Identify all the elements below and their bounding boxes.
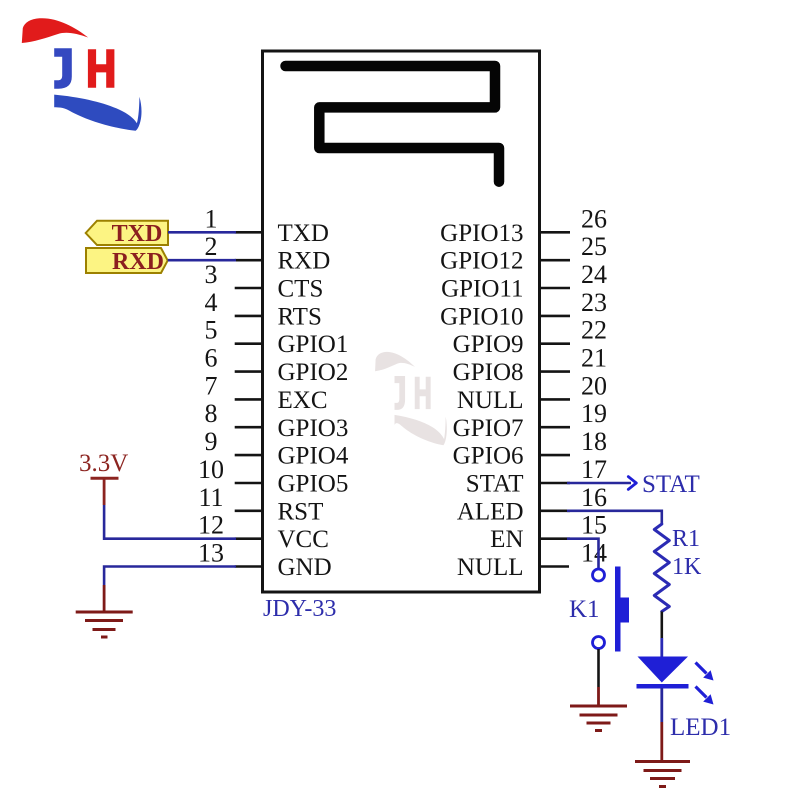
svg-text:26: 26 [581, 204, 607, 233]
svg-text:ALED: ALED [457, 498, 524, 525]
pin 2 stub [235, 259, 263, 262]
pin 19 stub [540, 426, 571, 429]
pin 25 stub [540, 259, 571, 262]
svg-text:GPIO1: GPIO1 [278, 331, 349, 358]
pin 3 stub [235, 287, 263, 290]
logo red swoosh [22, 18, 88, 43]
pin 26 stub [540, 231, 571, 234]
svg-text:EXC: EXC [278, 387, 328, 414]
switch K1 actuator bar [615, 567, 621, 652]
svg-text:RXD: RXD [112, 249, 164, 275]
svg-text:RXD: RXD [278, 248, 331, 275]
wire STAT [567, 482, 631, 485]
pin 8 stub [235, 426, 263, 429]
svg-text:STAT: STAT [466, 471, 524, 498]
svg-text:GND: GND [278, 554, 332, 581]
wire TXD to pin 1 [168, 231, 236, 234]
pin 1 stub [235, 231, 263, 234]
ground symbol K1 [570, 706, 627, 731]
LED1 cathode bar [637, 684, 689, 689]
wire R1 to LED1 [660, 612, 663, 639]
svg-text:3.3V: 3.3V [79, 450, 128, 477]
wire LED1 to ground [660, 688, 663, 722]
watermark ghost logo [375, 352, 447, 445]
svg-text:GPIO8: GPIO8 [453, 359, 524, 386]
pin 15 stub [540, 537, 571, 540]
STAT arrow head [628, 477, 636, 490]
pin 16 stub [540, 509, 571, 512]
pin 6 stub [235, 370, 263, 373]
svg-text:6: 6 [205, 344, 218, 373]
svg-text:GPIO2: GPIO2 [278, 359, 349, 386]
svg-text:2: 2 [205, 232, 218, 261]
pin 12 stub [235, 537, 263, 540]
svg-text:TXD: TXD [278, 220, 329, 247]
svg-text:12: 12 [198, 511, 224, 540]
svg-text:19: 19 [581, 399, 607, 428]
pin 17 stub [540, 482, 571, 485]
pin 22 stub [540, 342, 571, 345]
LED1 light arrow 1 [696, 663, 714, 681]
svg-text:15: 15 [581, 511, 607, 540]
resistor R1 [654, 524, 669, 612]
wire K1 to ground [597, 649, 600, 687]
pin 23 stub [540, 315, 571, 318]
svg-text:4: 4 [205, 288, 218, 317]
svg-text:GPIO7: GPIO7 [453, 415, 524, 442]
wire GND pin 13 to ground [104, 567, 236, 586]
svg-text:JDY-33: JDY-33 [263, 596, 336, 622]
logo letter J [54, 48, 72, 88]
svg-text:5: 5 [205, 316, 218, 345]
svg-text:GPIO5: GPIO5 [278, 471, 349, 498]
IC U1 JDY-33 module body [263, 51, 540, 592]
pin 18 stub [540, 454, 571, 457]
svg-text:CTS: CTS [278, 276, 324, 303]
svg-text:GPIO12: GPIO12 [440, 248, 523, 275]
power red stem [103, 478, 106, 505]
wire power to VCC [104, 505, 236, 539]
svg-text:TXD: TXD [112, 221, 163, 247]
net flag TXD [86, 221, 168, 245]
svg-text:K1: K1 [569, 596, 600, 623]
svg-text:17: 17 [581, 455, 607, 484]
pin 4 stub [235, 315, 263, 318]
svg-text:NULL: NULL [457, 554, 524, 581]
switch K1 actuator button [621, 598, 630, 623]
pin 20 stub [540, 398, 571, 401]
LED1 light arrow 2 [696, 687, 714, 705]
svg-text:GPIO6: GPIO6 [453, 443, 524, 470]
power 3.3V bar symbol [91, 477, 119, 480]
svg-text:1K: 1K [672, 554, 702, 580]
svg-text:25: 25 [581, 232, 607, 261]
svg-text:24: 24 [581, 260, 607, 289]
svg-text:9: 9 [205, 427, 218, 456]
wire EN to K1 [567, 539, 599, 568]
antenna meander symbol [286, 66, 500, 182]
pin 9 stub [235, 454, 263, 457]
svg-text:21: 21 [581, 344, 607, 373]
svg-text:22: 22 [581, 316, 607, 345]
svg-text:8: 8 [205, 399, 218, 428]
svg-text:23: 23 [581, 288, 607, 317]
net flag RXD [86, 248, 168, 273]
svg-text:LED1: LED1 [670, 714, 731, 741]
wire ALED to R1 [567, 511, 662, 524]
pin 13 stub [235, 565, 263, 568]
svg-text:16: 16 [581, 483, 607, 512]
svg-text:GPIO10: GPIO10 [440, 303, 523, 330]
svg-text:GPIO13: GPIO13 [440, 220, 523, 247]
svg-text:1: 1 [205, 204, 218, 233]
svg-text:GPIO9: GPIO9 [453, 331, 524, 358]
ground symbol LED [635, 762, 690, 787]
svg-text:10: 10 [198, 455, 224, 484]
svg-text:GPIO4: GPIO4 [278, 443, 349, 470]
svg-text:VCC: VCC [278, 526, 329, 553]
pin 5 stub [235, 342, 263, 345]
svg-text:RTS: RTS [278, 303, 322, 330]
svg-text:18: 18 [581, 427, 607, 456]
svg-text:RST: RST [278, 498, 324, 525]
switch K1 top contact [593, 569, 605, 581]
svg-text:14: 14 [581, 539, 607, 568]
svg-text:STAT: STAT [642, 471, 700, 498]
ground stem left [103, 585, 106, 611]
svg-text:7: 7 [205, 371, 218, 400]
logo blue swoosh [54, 95, 141, 131]
ground symbol left [76, 612, 133, 637]
svg-text:13: 13 [198, 539, 224, 568]
pin 7 stub [235, 398, 263, 401]
pin 24 stub [540, 287, 571, 290]
pin 21 stub [540, 370, 571, 373]
pin 10 stub [235, 482, 263, 485]
svg-text:NULL: NULL [457, 387, 524, 414]
LED1 diode triangle [638, 657, 689, 683]
logo letter H [88, 49, 115, 87]
svg-text:GPIO3: GPIO3 [278, 415, 349, 442]
svg-text:R1: R1 [672, 526, 700, 552]
svg-text:11: 11 [198, 483, 223, 512]
svg-text:GPIO11: GPIO11 [441, 276, 523, 303]
switch K1 bottom contact [593, 637, 605, 649]
svg-text:20: 20 [581, 371, 607, 400]
pin 11 stub [235, 509, 263, 512]
svg-text:EN: EN [490, 526, 523, 553]
pin 14 stub [540, 565, 570, 568]
svg-text:3: 3 [205, 260, 218, 289]
wire RXD to pin 2 [168, 259, 236, 262]
